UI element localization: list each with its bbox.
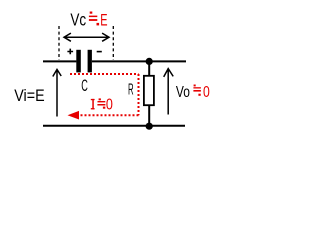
red current loop right edge [138, 74, 140, 115]
svg-text:Vo: Vo [176, 84, 190, 101]
junction dot top node [146, 58, 153, 65]
dimension double arrow for Vc [64, 33, 109, 41]
label I (current) [91, 99, 95, 110]
wire top conductor left segment [43, 60, 76, 62]
dashed extent line left [58, 26, 60, 60]
svg-text:R: R [128, 81, 134, 98]
polarity minus sign [97, 51, 102, 53]
svg-text:E: E [100, 10, 107, 29]
label approx-equal symbol for I [97, 98, 105, 108]
svg-text:C: C [81, 76, 88, 95]
capacitor C right plate [88, 50, 92, 73]
label approx-equal symbol for Vc [89, 12, 99, 26]
wire resistor top lead [148, 61, 150, 75]
label approx-equal symbol for Vo [193, 85, 201, 96]
resistor R body [144, 76, 154, 105]
svg-text:0: 0 [106, 97, 113, 114]
svg-text:0: 0 [203, 84, 210, 101]
arrow Vi (input voltage) [53, 69, 61, 116]
red current loop top edge [70, 73, 139, 75]
dashed extent line right [112, 26, 114, 60]
red current arrowhead [68, 111, 80, 120]
svg-text:Vi=E: Vi=E [14, 86, 44, 105]
polarity plus sign [67, 49, 73, 55]
wire top conductor right segment [92, 60, 186, 62]
red current loop bottom edge [79, 114, 139, 116]
junction dot bottom node [146, 123, 153, 130]
wire bottom conductor [43, 125, 185, 127]
arrow Vo (output voltage) [164, 69, 174, 115]
capacitor C left plate [76, 50, 81, 73]
wire resistor bottom lead [148, 105, 150, 126]
svg-text:Vc: Vc [70, 9, 86, 29]
